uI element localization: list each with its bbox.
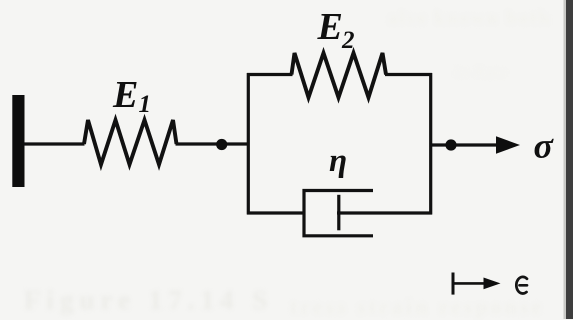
svg-text:E: E — [112, 74, 138, 116]
svg-text:η: η — [329, 143, 347, 179]
svg-text:σ: σ — [534, 126, 555, 166]
svg-text:2: 2 — [341, 27, 355, 54]
svg-text:1: 1 — [139, 91, 152, 118]
svg-text:E: E — [317, 6, 343, 48]
